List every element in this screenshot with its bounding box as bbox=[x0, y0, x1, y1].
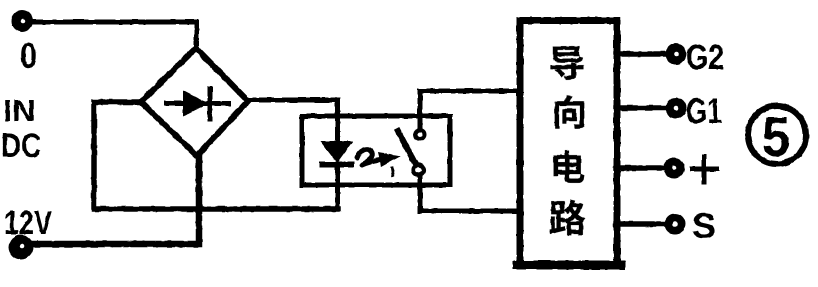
box U1: steering circuit (dao xiang dian lu) bbox=[520, 21, 617, 265]
svg-text:G2: G2 bbox=[686, 38, 724, 77]
terminal S bbox=[665, 214, 686, 235]
value label: character 路 in box U1 bbox=[549, 200, 585, 236]
wire: terminal T1 to bridge top vertex bbox=[31, 22, 197, 48]
terminal T2 (12V / IN DC bottom) bbox=[9, 235, 34, 260]
wire: box U1 to terminal S bbox=[616, 221, 665, 227]
wire: box U1 to terminal G2 bbox=[616, 51, 666, 57]
terminal plus bbox=[664, 158, 685, 179]
label plus bbox=[692, 157, 716, 182]
wire: bridge left vertex (minus) down and right to LED cathode bbox=[94, 102, 338, 209]
svg-text:5: 5 bbox=[762, 105, 790, 168]
value label: character 电 in box U1 bbox=[554, 150, 585, 183]
optocoupler box U2 bbox=[302, 116, 450, 185]
light arrows from LED D2 to photo-switch bbox=[357, 149, 401, 175]
value label: character 导 in box U1 bbox=[550, 46, 583, 80]
terminal G2 bbox=[666, 44, 687, 65]
wire: bridge right vertex (plus) to LED anode bbox=[248, 100, 338, 141]
wire: switch bottom contact to box U1 bbox=[420, 209, 520, 214]
wire: switch top contact to box U1 bbox=[420, 89, 520, 94]
svg-text:12V: 12V bbox=[4, 204, 52, 241]
svg-text:S: S bbox=[692, 207, 716, 246]
terminal G1 bbox=[666, 98, 687, 119]
figure number: circled 5 bbox=[748, 105, 806, 168]
LED D2 inside optocoupler (anode top, cathode bar bottom) bbox=[320, 141, 353, 209]
diode symbol inside bridge D1 bbox=[166, 89, 228, 119]
photo-switch S1: top contact, blade, bottom contact bbox=[398, 91, 425, 211]
wire: box U1 to terminal G1 bbox=[616, 105, 666, 111]
terminal T1 (0 / IN DC top) bbox=[11, 10, 33, 32]
svg-text:IN: IN bbox=[3, 93, 36, 128]
svg-text:0: 0 bbox=[20, 35, 37, 76]
svg-text:G1: G1 bbox=[686, 92, 722, 131]
value label: character 向 in box U1 bbox=[555, 95, 585, 128]
wire: box U1 to terminal plus bbox=[616, 165, 664, 171]
svg-text:DC: DC bbox=[1, 127, 41, 165]
wire: terminal T2 to bridge bottom vertex bbox=[32, 156, 199, 244]
bridge rectifier D1 (diamond) bbox=[141, 48, 248, 156]
